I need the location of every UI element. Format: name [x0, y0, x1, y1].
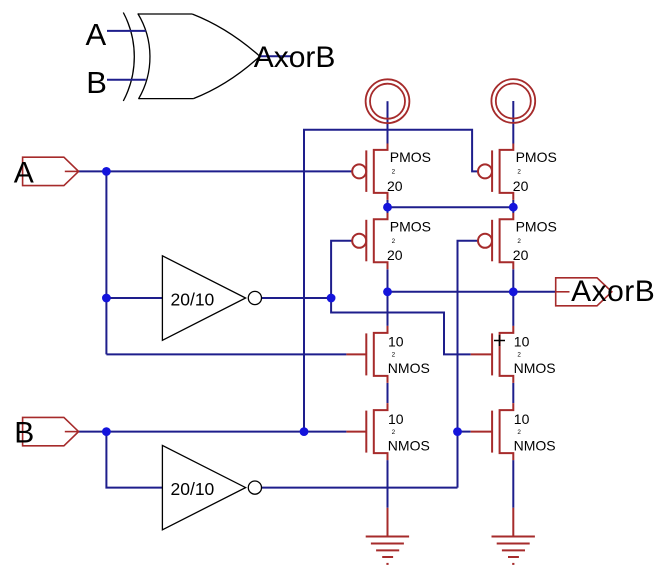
- svg-text:AxorB: AxorB: [571, 275, 655, 308]
- svg-text:20: 20: [513, 247, 529, 263]
- transistor PMOS BL: [352, 213, 387, 269]
- xor gate U-top back arc 1: [123, 13, 134, 102]
- svg-text:B: B: [14, 417, 34, 450]
- wire A vertical: [105, 171, 107, 354]
- wire Bbar riser to PMOS BR gate: [458, 241, 478, 488]
- svg-text:NMOS: NMOS: [388, 360, 430, 376]
- port B (input export): [23, 417, 79, 445]
- node B junction: [102, 427, 111, 436]
- tiny z labels: [392, 169, 522, 436]
- wire xor input B: [107, 79, 146, 81]
- svg-text:2: 2: [517, 169, 521, 176]
- node inverter1 tap: [102, 294, 111, 303]
- xor gate top edge: [138, 13, 192, 15]
- svg-text:PMOS: PMOS: [390, 149, 431, 165]
- node pmos mid right: [509, 203, 518, 212]
- wire output rail: [388, 291, 556, 293]
- transistor PMOS TL: [352, 144, 387, 200]
- xor gate bottom edge: [139, 98, 194, 100]
- node Abar junction: [327, 294, 336, 303]
- wire left stack seg2: [387, 269, 389, 326]
- wire A to NMOS TL gate: [106, 353, 346, 355]
- wire B riser: [304, 130, 478, 432]
- wire Abar from inverter1: [262, 297, 332, 299]
- svg-text:2: 2: [517, 352, 521, 359]
- svg-text:PMOS: PMOS: [516, 149, 557, 165]
- svg-text:NMOS: NMOS: [388, 438, 430, 454]
- wire left stack seg1: [387, 200, 389, 213]
- xor gate output bottom curve: [193, 56, 259, 98]
- wire A rail horizontal: [79, 170, 353, 172]
- node A junction: [102, 167, 111, 176]
- xor gate output top curve: [192, 14, 260, 56]
- svg-text:NMOS: NMOS: [514, 438, 556, 454]
- wire left stack to ground: [387, 460, 389, 508]
- svg-text:B: B: [86, 65, 107, 100]
- svg-text:AxorB: AxorB: [254, 41, 336, 74]
- svg-text:A: A: [14, 156, 34, 189]
- wire vdd stem right: [512, 101, 514, 144]
- node output left: [383, 287, 392, 296]
- svg-text:10: 10: [514, 334, 530, 350]
- wire right stack to ground: [512, 460, 514, 508]
- svg-text:10: 10: [388, 334, 404, 350]
- node B riser junction: [300, 427, 309, 436]
- node output right: [509, 287, 518, 296]
- wire right stack seg1: [512, 200, 514, 213]
- svg-text:20/10: 20/10: [171, 479, 215, 499]
- wire vdd stem left: [387, 101, 389, 143]
- wire xor output stub: [260, 55, 291, 57]
- wire left stack seg3: [387, 383, 389, 403]
- svg-text:2: 2: [392, 169, 396, 176]
- wire right stack seg3: [512, 383, 514, 403]
- power VDD left: [366, 79, 410, 123]
- transistor NMOS TR: [471, 326, 514, 383]
- ground right: [492, 508, 535, 564]
- svg-text:A: A: [86, 17, 107, 52]
- wire B rail horizontal: [79, 431, 347, 433]
- transistor NMOS TL: [346, 326, 387, 383]
- svg-text:2: 2: [392, 238, 396, 245]
- svg-text:20/10: 20/10: [171, 290, 215, 310]
- wire right stack seg2: [512, 269, 514, 326]
- wire xor input A: [107, 30, 146, 32]
- svg-text:2: 2: [392, 352, 396, 359]
- wire Abar to PMOS BL gate: [331, 241, 352, 298]
- port AxorB (output export): [556, 278, 612, 306]
- svg-text:PMOS: PMOS: [516, 218, 557, 234]
- svg-text:10: 10: [388, 411, 404, 427]
- ground left: [366, 508, 409, 564]
- transistor NMOS BR: [471, 403, 514, 460]
- marker plus on NMOS TR: [494, 335, 505, 346]
- wire Abar to NMOS TR gate: [331, 298, 471, 354]
- svg-text:2: 2: [517, 238, 521, 245]
- power VDD right: [491, 79, 535, 123]
- port A (input export): [23, 157, 79, 185]
- node Bbar junction: [453, 427, 462, 436]
- inverter 2 (B): [162, 445, 245, 529]
- svg-text:PMOS: PMOS: [390, 218, 431, 234]
- node pmos mid left: [383, 203, 392, 212]
- wire pmos mid node: [388, 206, 514, 208]
- svg-text:20: 20: [513, 178, 529, 194]
- wire Bbar junction to NMOS BR gate: [458, 431, 471, 433]
- svg-text:20: 20: [387, 247, 403, 263]
- transistor PMOS TR: [478, 144, 513, 200]
- wire Bbar from inverter2: [262, 487, 458, 489]
- transistor PMOS BR: [478, 213, 513, 269]
- wire B vertical to inverter2: [106, 432, 162, 488]
- svg-text:10: 10: [514, 411, 530, 427]
- svg-text:20: 20: [387, 178, 403, 194]
- inverter 1 (A): [162, 256, 245, 340]
- xor gate back arc 2: [138, 14, 150, 100]
- transistor NMOS BL: [346, 403, 387, 460]
- svg-text:2: 2: [392, 429, 396, 436]
- svg-text:2: 2: [517, 429, 521, 436]
- svg-text:NMOS: NMOS: [514, 360, 556, 376]
- wire inverter1 input: [106, 297, 162, 299]
